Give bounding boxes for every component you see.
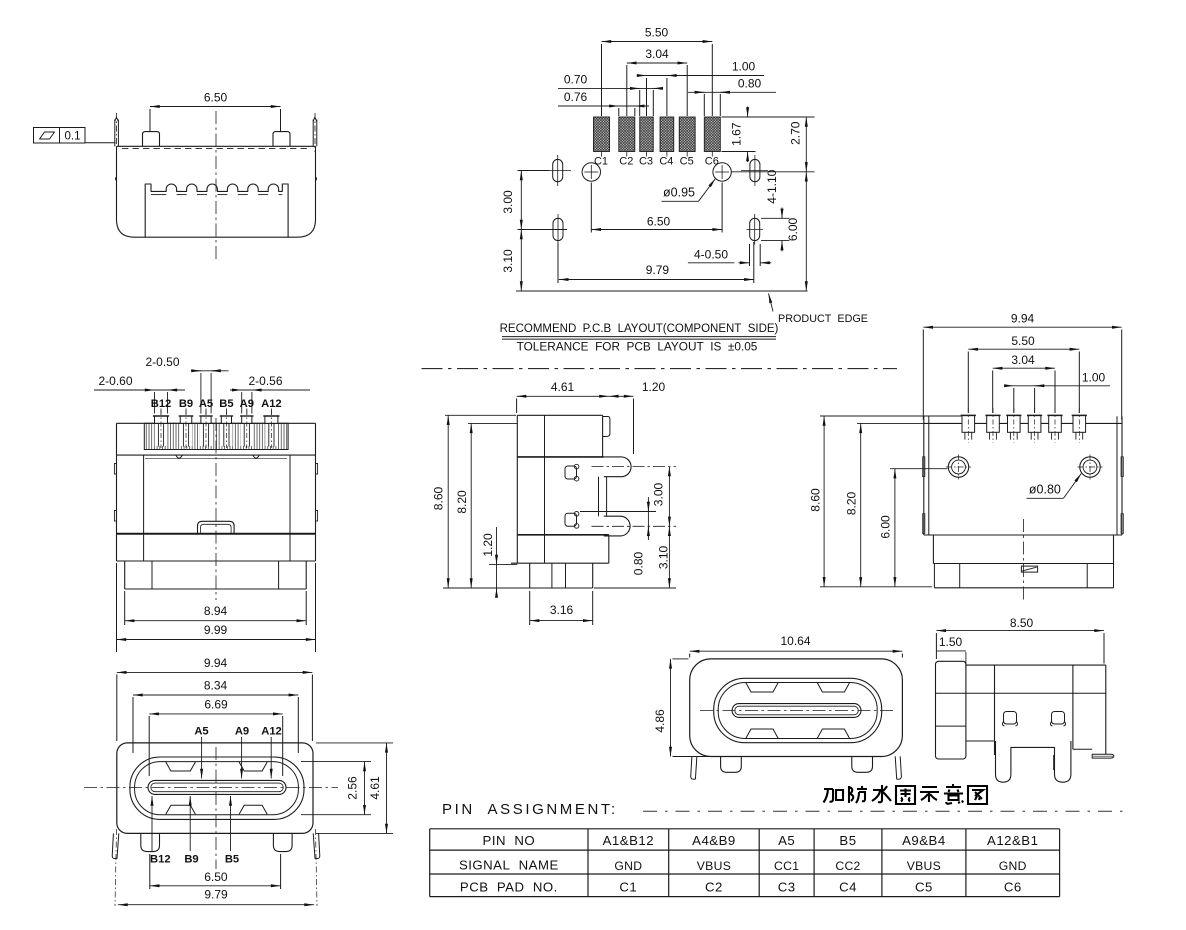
svg-text:B9: B9 (179, 398, 193, 410)
svg-text:1.20: 1.20 (481, 533, 495, 557)
svg-text:C4: C4 (839, 880, 857, 895)
latch bumps view7 bottom (746, 729, 778, 738)
tongue centreline view7 (700, 710, 893, 712)
inner cavity oval (135, 762, 299, 815)
upper contact beam (604, 457, 631, 477)
svg-text:2-0.60: 2-0.60 (98, 374, 132, 388)
svg-text:1.20: 1.20 (642, 380, 666, 394)
svg-text:8.94: 8.94 (204, 604, 228, 618)
svg-text:4-1.10: 4-1.10 (765, 169, 779, 203)
svg-text:1.00: 1.00 (1082, 371, 1106, 385)
svg-text:B12: B12 (150, 854, 171, 866)
waterproof seal block (936, 661, 966, 759)
shell top band striped (144, 423, 288, 449)
svg-text:0.80: 0.80 (632, 551, 646, 575)
svg-text:9.79: 9.79 (204, 888, 228, 902)
latch bumps view7 top (746, 683, 778, 692)
beam web (598, 477, 600, 517)
DIP legs bracket view8 (996, 741, 1071, 782)
svg-text:VBUS: VBUS (697, 859, 731, 873)
svg-text:3.04: 3.04 (645, 47, 669, 61)
svg-text:8.34: 8.34 (204, 679, 228, 693)
body bottom lines view8 (966, 740, 995, 742)
insulator shoulder line + dimples (145, 458, 287, 460)
svg-text:4.61: 4.61 (551, 380, 575, 394)
centre line through right hole (732, 171, 815, 173)
body rear plate (516, 415, 518, 563)
contact centrelines phantom (592, 466, 677, 468)
centre weld detail (1021, 566, 1037, 572)
wall latch details (923, 457, 925, 477)
svg-text:6.50: 6.50 (204, 870, 228, 884)
shell outline view7 (690, 659, 903, 757)
svg-text:0.70: 0.70 (564, 73, 588, 87)
dashed seam line under top edge (122, 148, 310, 150)
mid heavy line (117, 533, 316, 535)
6.00 extension (890, 468, 948, 470)
svg-text:2-0.56: 2-0.56 (248, 374, 282, 388)
svg-text:0.80: 0.80 (738, 77, 762, 91)
svg-text:6.00: 6.00 (878, 515, 892, 539)
svg-text:8.60: 8.60 (808, 488, 822, 512)
8.60 extension line through pins (820, 415, 962, 417)
svg-text:9.94: 9.94 (1011, 312, 1035, 326)
inner leg line view8 (1053, 755, 1055, 770)
steps bottom of top view (924, 534, 1122, 536)
svg-text:4-0.50: 4-0.50 (694, 248, 728, 262)
svg-text:A4&B9: A4&B9 (692, 833, 736, 848)
svg-text:B5: B5 (225, 854, 239, 866)
latch bumps bottom (166, 805, 196, 814)
svg-text:8.60: 8.60 (431, 486, 445, 510)
svg-text:3.04: 3.04 (1011, 353, 1035, 367)
terminal clip lower (565, 513, 577, 526)
svg-text:B5: B5 (839, 833, 856, 848)
mounting hole C-left (582, 163, 600, 181)
mounting hole C-right (713, 163, 731, 181)
svg-text:6.50: 6.50 (647, 215, 671, 229)
svg-text:A5: A5 (194, 726, 208, 738)
EMI spring crenellation (145, 184, 288, 237)
centre keying bump (198, 521, 235, 534)
outer cavity oval (130, 757, 304, 819)
slot top-right (750, 159, 760, 181)
body outline view8 (966, 664, 1106, 666)
latch bumps top (166, 762, 196, 771)
svg-text:PIN NO: PIN NO (483, 833, 536, 848)
svg-text:8.50: 8.50 (1010, 616, 1034, 630)
left solder pin (114, 120, 116, 147)
mount feet (141, 833, 160, 851)
svg-text:B5: B5 (219, 398, 233, 410)
svg-text:9.94: 9.94 (204, 656, 228, 670)
svg-text:GND: GND (614, 859, 642, 873)
SMT foot right (1092, 754, 1114, 758)
svg-text:A1&B12: A1&B12 (603, 833, 654, 848)
body outline top view (923, 416, 925, 535)
terminal clip upper (565, 466, 577, 479)
svg-text:1.00: 1.00 (732, 60, 756, 74)
svg-text:GND: GND (999, 859, 1027, 873)
svg-text:A5: A5 (199, 398, 213, 410)
svg-text:10.64: 10.64 (780, 634, 810, 648)
svg-text:3.16: 3.16 (550, 603, 574, 617)
svg-text:1.50: 1.50 (939, 635, 963, 649)
tongue view7 (732, 704, 861, 718)
svg-text:9.99: 9.99 (204, 623, 228, 637)
inner body verticals (143, 455, 145, 534)
svg-text:4.61: 4.61 (368, 776, 382, 800)
leaders B pins (151, 796, 153, 851)
baseline extension (443, 587, 530, 589)
svg-text:8.20: 8.20 (455, 490, 469, 514)
top mounting bumps (143, 132, 160, 147)
terminal clips view8 (1004, 712, 1017, 725)
lower contact beam (604, 516, 630, 536)
bottom extension for dims (820, 586, 932, 588)
mid shelf line (517, 456, 604, 458)
svg-text:3.10: 3.10 (501, 249, 515, 273)
svg-text:4.86: 4.86 (653, 709, 667, 733)
shell body outline (117, 146, 316, 237)
svg-text:3.10: 3.10 (657, 545, 671, 569)
leaders A pins (201, 737, 203, 779)
phantom separation line (422, 368, 898, 370)
svg-text:C2: C2 (705, 880, 723, 895)
svg-text:C1: C1 (619, 880, 637, 895)
tongue front (148, 780, 286, 794)
svg-text:C2: C2 (619, 156, 633, 168)
svg-text:1.67: 1.67 (730, 122, 744, 146)
svg-text:ø0.80: ø0.80 (1029, 483, 1061, 497)
svg-text:A12: A12 (261, 726, 282, 738)
svg-text:3.00: 3.00 (651, 482, 665, 506)
svg-text:3.00: 3.00 (501, 190, 515, 214)
svg-text:A5: A5 (778, 833, 795, 848)
svg-text:5.50: 5.50 (1011, 334, 1035, 348)
svg-text:C4: C4 (659, 156, 673, 168)
svg-text:C3: C3 (639, 156, 653, 168)
svg-text:A9: A9 (240, 398, 254, 410)
PRODUCT EDGE label + leader (769, 294, 774, 312)
tongue centreline horizontal (84, 786, 338, 788)
solder pads C1-C6 hatched (594, 117, 610, 152)
svg-text:0.1: 0.1 (65, 131, 81, 143)
svg-text:C3: C3 (778, 880, 796, 895)
svg-text:C6: C6 (1004, 880, 1022, 895)
svg-text:C5: C5 (680, 156, 694, 168)
svg-text:C1: C1 (594, 156, 608, 168)
slot bottom-right (750, 218, 760, 240)
svg-text:RECOMMEND P.C.B LAYOUT(COMPO: RECOMMEND P.C.B LAYOUT(COMPONENT SIDE) (500, 323, 779, 335)
svg-text:8.20: 8.20 (845, 491, 859, 515)
inner oval view7 (718, 683, 877, 739)
side dimples (116, 177, 117, 181)
svg-text:2.70: 2.70 (789, 121, 803, 145)
svg-text:PCB PAD NO.: PCB PAD NO. (460, 880, 558, 895)
svg-text:9.79: 9.79 (646, 263, 670, 277)
rivet left (948, 457, 968, 477)
slot top-left (553, 159, 563, 181)
svg-text:6.00: 6.00 (786, 217, 800, 241)
lower band (143, 534, 145, 561)
svg-text:5.50: 5.50 (645, 26, 669, 40)
svg-text:SIGNAL NAME: SIGNAL NAME (459, 858, 559, 873)
phantom line right of caption (643, 810, 1130, 812)
terminal pins (160, 409, 162, 415)
legs view7 (691, 756, 697, 779)
svg-text:B12: B12 (151, 398, 172, 410)
shell sides (116, 423, 118, 561)
seal foot (529, 563, 531, 588)
svg-text:B9: B9 (184, 854, 198, 866)
svg-text:CC2: CC2 (835, 859, 860, 873)
svg-text:2-0.50: 2-0.50 (145, 355, 179, 369)
svg-text:6.50: 6.50 (204, 91, 228, 105)
lower shelf (517, 534, 609, 536)
svg-text:2.56: 2.56 (346, 776, 360, 800)
svg-text:6.69: 6.69 (204, 698, 228, 712)
bottom seal step (124, 561, 126, 589)
rivet right (1080, 457, 1100, 477)
top flange tab (602, 415, 604, 457)
svg-text:PRODUCT EDGE: PRODUCT EDGE (778, 313, 868, 325)
shell outline front face (117, 743, 313, 834)
svg-text:ø0.95: ø0.95 (663, 186, 695, 200)
centerline vertical (215, 111, 217, 262)
slot bottom-left (553, 218, 563, 240)
title: waterproof-ring schematic caption (CJK strokes) (824, 789, 844, 803)
side latch notches (114, 464, 116, 475)
product edge line (516, 290, 808, 292)
svg-text:C6: C6 (705, 156, 719, 168)
svg-text:A9: A9 (235, 726, 249, 738)
svg-text:CC1: CC1 (774, 859, 799, 873)
svg-text:TOLERANCE FOR PCB LAYOUT I: TOLERANCE FOR PCB LAYOUT IS ±0.05 (517, 340, 758, 354)
centreline top view (1022, 519, 1024, 603)
outer oval view7 (714, 678, 882, 742)
GD&T flatness frame 0.1 (34, 128, 86, 144)
svg-text:A9&B4: A9&B4 (902, 833, 946, 848)
svg-text:C5: C5 (915, 880, 933, 895)
feet view7 (721, 757, 742, 773)
centreline front view (215, 418, 217, 600)
solder legs view6 (112, 833, 119, 858)
top view terminals (962, 415, 975, 432)
leader from frame to shell pin (85, 142, 116, 144)
centreline vertical view6 (215, 747, 217, 869)
svg-text:PIN ASSIGNMENT:: PIN ASSIGNMENT: (442, 801, 618, 818)
svg-text:A12&B1: A12&B1 (987, 833, 1038, 848)
svg-text:0.76: 0.76 (564, 90, 588, 104)
right solder pin (312, 120, 314, 147)
body top line (924, 422, 1122, 424)
svg-text:A12: A12 (261, 398, 282, 410)
svg-text:VBUS: VBUS (907, 859, 941, 873)
pin assignment table (430, 828, 1060, 830)
